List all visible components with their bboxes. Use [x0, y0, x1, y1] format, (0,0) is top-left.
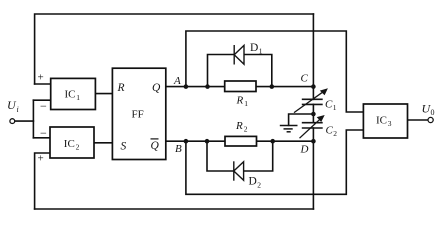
- svg-text:IC: IC: [376, 115, 387, 127]
- resistor R2: [225, 136, 257, 146]
- op-amp IC3 box: [363, 104, 407, 138]
- svg-text:1: 1: [259, 47, 263, 56]
- svg-text:3: 3: [388, 119, 392, 128]
- ground: [280, 126, 298, 132]
- node B junction dot: [184, 139, 189, 144]
- wire to IC1 minus input: [33, 99, 50, 101]
- wire outer right vertical lower segment through node D to bottom: [312, 128, 314, 209]
- svg-text:S: S: [121, 141, 127, 153]
- wire input tee vertical: [32, 100, 34, 138]
- wire D1 parallel branch: [208, 55, 272, 87]
- svg-text:0: 0: [431, 108, 435, 117]
- junction dot right of R1: [270, 84, 275, 89]
- node A junction dot: [184, 84, 189, 89]
- svg-text:1: 1: [333, 103, 337, 112]
- svg-text:2: 2: [76, 143, 80, 152]
- svg-text:R: R: [236, 95, 244, 107]
- diode D2: [234, 161, 244, 180]
- svg-text:C: C: [301, 73, 309, 85]
- svg-text:U: U: [7, 98, 17, 112]
- node C junction dot: [311, 84, 316, 89]
- junction dot left of R2: [205, 139, 210, 144]
- wire node B loop to IC3 lower input: [186, 130, 364, 194]
- svg-text:2: 2: [257, 181, 261, 190]
- wire segment between C1 and C2: [312, 104, 314, 122]
- output terminal circle Uo: [428, 117, 433, 122]
- svg-text:IC: IC: [64, 138, 75, 150]
- svg-text:i: i: [17, 105, 19, 114]
- svg-text:1: 1: [76, 93, 80, 102]
- svg-text:Q: Q: [151, 140, 160, 152]
- svg-text:C: C: [326, 125, 334, 137]
- op-amp comparator IC1 box: [51, 78, 96, 109]
- wire lower main B wire from FF Qbar to node D: [166, 140, 314, 142]
- node D junction dot: [311, 139, 316, 144]
- capacitor C1 (variable): [294, 90, 325, 112]
- svg-text:R: R: [235, 120, 243, 132]
- svg-text:D: D: [249, 176, 257, 188]
- wire node A loop to IC3 upper input: [186, 31, 364, 112]
- wire outer bottom feedback line: [35, 208, 314, 210]
- svg-text:+: +: [38, 72, 44, 84]
- diode D1: [234, 45, 244, 65]
- svg-text:C: C: [325, 99, 333, 111]
- wire outer top feedback line: [35, 14, 314, 84]
- wire IC1 plus input from top feedback: [35, 83, 51, 85]
- svg-text:D: D: [250, 42, 258, 54]
- svg-text:B: B: [175, 143, 182, 155]
- svg-text:R: R: [117, 82, 125, 94]
- svg-text:Q: Q: [152, 82, 161, 94]
- wire IC2 output to FF S input: [94, 142, 112, 144]
- svg-text:2: 2: [244, 125, 248, 134]
- wire to IC2 minus input: [33, 137, 50, 139]
- wire IC3 output: [408, 119, 429, 121]
- wire upper main A wire from FF Q to node C: [166, 86, 314, 88]
- wire IC1 output to FF R input: [95, 93, 112, 95]
- svg-text:IC: IC: [65, 89, 76, 101]
- svg-text:A: A: [173, 75, 181, 87]
- svg-text:D: D: [300, 144, 309, 156]
- wire outer right vertical upper segment (node C column): [312, 14, 314, 99]
- resistor R1: [225, 81, 256, 92]
- svg-text:2: 2: [333, 129, 337, 138]
- junction dot left of R1: [205, 84, 210, 89]
- capacitor C2 (variable): [300, 117, 323, 138]
- svg-text:+: +: [38, 153, 44, 165]
- wire D2 parallel branch: [207, 141, 273, 171]
- wire left vertical to IC2 plus input: [35, 153, 50, 209]
- svg-text:1: 1: [244, 99, 248, 108]
- wire ground branch from C1-C2 junction: [289, 114, 314, 125]
- svg-text:−: −: [40, 99, 47, 113]
- junction dot right of R2: [270, 139, 275, 144]
- flip-flop FF box: [112, 68, 165, 159]
- wire input Ui to tee: [15, 120, 34, 122]
- op-amp comparator IC2 box: [50, 127, 94, 158]
- svg-text:FF: FF: [132, 109, 144, 121]
- ground junction dot between C1 and C2: [311, 112, 316, 117]
- svg-text:−: −: [40, 126, 47, 140]
- input terminal circle Ui: [10, 119, 15, 124]
